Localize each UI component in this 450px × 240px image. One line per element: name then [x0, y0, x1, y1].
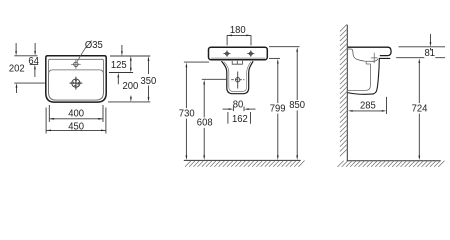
svg-text:724: 724: [412, 103, 428, 115]
top view: basin inner rim line: [49, 59, 104, 100]
rim inner bottom line: [211, 57, 265, 59]
svg-text:730: 730: [179, 108, 195, 120]
trap / pedestal inner line: [348, 61, 371, 90]
ground line side: [347, 160, 441, 162]
dim 202/64 top ref ext line: [14, 55, 37, 57]
dim 81 top arrow: [430, 34, 432, 42]
svg-text:81: 81: [425, 48, 436, 60]
bowl section line: [348, 49, 378, 61]
dim 799: [277, 63, 279, 156]
dim 400: [48, 105, 50, 122]
basin profile outer rim: [348, 47, 391, 55]
svg-text:125: 125: [111, 59, 127, 71]
ext line drain level left: [202, 78, 226, 80]
svg-text:Ø35: Ø35: [85, 39, 103, 51]
overflow marks: [232, 61, 242, 64]
wall line: [346, 25, 348, 161]
dim 125 double arrow: [130, 59, 132, 71]
faucet hole: [74, 62, 78, 66]
rim lip + front edge + pedestal outer: [348, 58, 390, 94]
svg-text:285: 285: [360, 100, 376, 112]
ext line rim bottom right: [269, 57, 280, 59]
wall hatch: [340, 24, 347, 156]
dim 81 inner arrow: [430, 48, 432, 53]
drain level ext line left: [14, 82, 45, 84]
dim 850: [296, 51, 298, 156]
fixing hole right: [249, 52, 253, 56]
drain center line side: [373, 53, 375, 63]
right dims: top ref ext line: [110, 55, 150, 57]
drain: [72, 79, 80, 87]
dim 202 top arrow: [15, 43, 17, 52]
dim 724: [418, 63, 420, 157]
svg-text:608: 608: [197, 117, 213, 129]
dim 450: [45, 108, 47, 134]
ext line rim top right: [269, 46, 300, 48]
dim 200 bottom arrow: [130, 96, 132, 98]
dim 202 bottom arrow: [16, 83, 18, 88]
ground hatch front: [185, 161, 305, 167]
dim 81 top ext line: [399, 46, 446, 48]
svg-text:64: 64: [28, 55, 39, 67]
svg-text:202: 202: [9, 63, 25, 75]
svg-text:162: 162: [232, 114, 248, 126]
svg-text:180: 180: [230, 25, 246, 37]
125 level ext line: [109, 72, 133, 74]
dim 608: [203, 84, 205, 157]
fixing hole left: [225, 52, 229, 56]
drain cross front: [236, 78, 240, 82]
ground hatch side: [338, 161, 445, 167]
bottom ref ext line right: [108, 101, 150, 103]
pedestal front: [222, 61, 254, 94]
dim 64 bottom ref line: [30, 64, 38, 66]
dim 350 line: [148, 58, 150, 74]
dim 64 bottom arrow: [34, 65, 36, 70]
svg-text:80: 80: [233, 99, 244, 111]
dim 64 top arrow: [34, 43, 36, 52]
top view: bowl outline: [49, 70, 104, 100]
top view: basin outer outline: [46, 56, 106, 102]
285 ext line: [386, 97, 388, 114]
svg-text:350: 350: [141, 76, 157, 88]
pedestal inner line: [224, 62, 251, 92]
dim text 81: [424, 50, 435, 58]
svg-text:400: 400: [68, 108, 84, 120]
ground line front: [184, 159, 301, 161]
front view: rim: [209, 47, 268, 60]
svg-text:450: 450: [68, 121, 84, 133]
label O35 leader: [77, 47, 86, 61]
dim 200 mid arrow: [117, 73, 119, 78]
svg-text:850: 850: [289, 100, 305, 112]
svg-text:799: 799: [270, 103, 286, 115]
dim 730: [185, 67, 187, 157]
dim 81 bottom ext line: [396, 57, 445, 59]
svg-text:200: 200: [123, 81, 139, 93]
ext line rim bottom left: [184, 61, 209, 63]
dim 200 top arrow: [121, 45, 123, 52]
